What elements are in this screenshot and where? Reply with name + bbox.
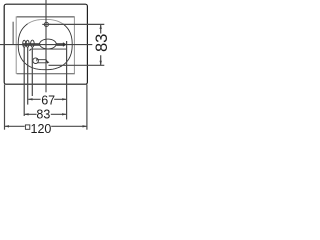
dim line 83 [24, 113, 66, 115]
arrow left 83 [24, 113, 28, 115]
screw hole with crosshair [44, 22, 48, 26]
keyhole circle [33, 58, 39, 64]
mounting plate rounded-square outline [18, 24, 72, 70]
arrow up (vert 83 top) [100, 25, 102, 29]
vertical centerline [45, 0, 47, 92]
extension line x27.7 (67 dim left, from oval2) [27, 47, 29, 104]
inner square [16, 16, 75, 73]
inner square left edge [15, 16, 17, 73]
shared right extension x66.6 (knockout slot end bar) [66, 41, 68, 120]
extension line x24.2 (83 dim left, from oval1) [23, 47, 25, 116]
keyhole inner mark [36, 59, 38, 62]
svg-text:83: 83 [36, 108, 50, 122]
square glyph of 120 dim [25, 125, 29, 129]
chord line with curled left end [30, 49, 67, 51]
inner square bottom edge [17, 73, 75, 75]
center oval knockout [40, 39, 57, 49]
arrow right 120 [83, 125, 87, 127]
left oval knockout 1 [23, 40, 26, 47]
svg-text:83: 83 [93, 34, 111, 52]
arrow right 83 [62, 113, 66, 115]
extension line x32.3 (from oval3/chord) [31, 48, 33, 97]
inner square right edge [73, 16, 75, 73]
vertical 83 dimension line [100, 24, 102, 65]
inner square top edge [17, 16, 75, 18]
left flange slot line [12, 22, 14, 45]
bottom extension line (vert 83 dim) [49, 64, 105, 66]
crosshair tick [42, 23, 50, 25]
right neck lines [56, 43, 63, 45]
plate top arc (lighter) [28, 19, 63, 23]
dim line 67 [28, 98, 66, 100]
keyhole slot end tick [47, 61, 50, 64]
dim line 120 [5, 125, 87, 127]
arrow left 120 [5, 125, 9, 127]
left oval knockout 3 [31, 40, 35, 47]
horizontal centerline [0, 44, 92, 46]
left neck lines [23, 43, 40, 45]
outer square (fixture outline 120) [4, 4, 87, 84]
svg-text:67: 67 [41, 93, 55, 107]
arrow left 67 [28, 98, 32, 100]
top extension line (vert 83 dim) [46, 23, 104, 25]
extension line x86.9 (120 dim right) [86, 84, 88, 129]
extension line x4.5 (120 dim left) [4, 84, 6, 129]
arrow right 67 [62, 98, 66, 100]
svg-text:120: 120 [31, 122, 52, 136]
filled tab arrow [63, 42, 67, 47]
keyhole slot [37, 60, 47, 63]
arrow down (vert 83 bottom) [100, 61, 102, 65]
left oval knockout 2 [26, 40, 29, 47]
